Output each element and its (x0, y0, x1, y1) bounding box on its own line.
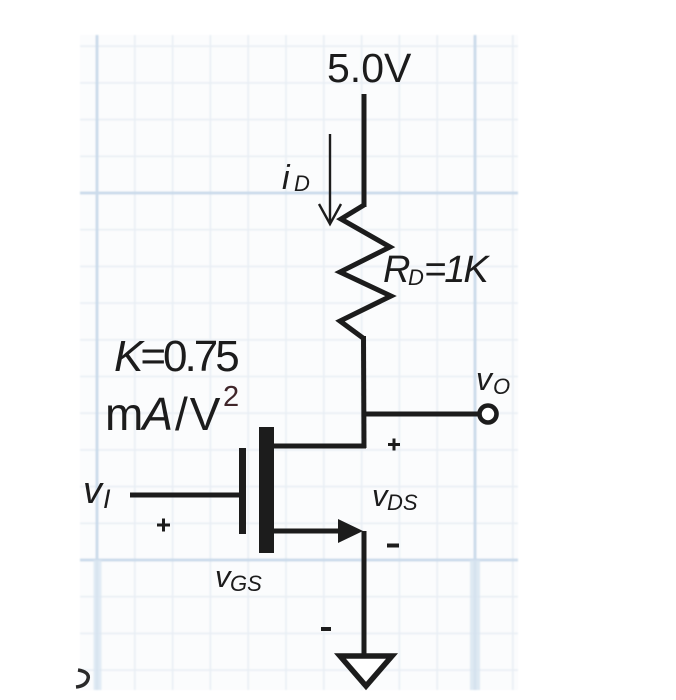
svg-text:I: I (103, 484, 111, 514)
label minus near ground (321, 627, 331, 631)
resistor R_D zigzag (340, 205, 391, 338)
wire supply vertical from 5.0V to resistor (362, 94, 367, 207)
wire source lead with arrow (274, 519, 363, 543)
label K=0.75 (114, 332, 238, 381)
label RD=1K (383, 249, 490, 291)
svg-text:DS: DS (387, 490, 418, 515)
label plus at drain (388, 439, 400, 451)
svg-text:=1K: =1K (424, 249, 490, 291)
label minus below vDS (387, 544, 399, 548)
ground symbol (340, 656, 392, 686)
label vI (83, 470, 111, 514)
svg-text:D: D (294, 171, 310, 196)
wire drain vertical (361, 336, 367, 448)
svg-text:D: D (408, 265, 424, 290)
graph paper background (80, 35, 518, 690)
terminal vO open circle (480, 406, 497, 423)
label mA/V^2 (105, 381, 239, 440)
svg-text:mA/V: mA/V (105, 388, 221, 440)
label plus at gate (157, 519, 170, 532)
svg-text:K=0.75: K=0.75 (114, 332, 238, 381)
svg-text:2: 2 (223, 381, 239, 413)
svg-text:R: R (383, 249, 410, 291)
label vDS (372, 478, 418, 515)
label iD (282, 159, 310, 197)
label vO (476, 361, 510, 399)
wire drain lead horizontal into transistor (274, 444, 366, 449)
transistor Q1 channel bar (259, 427, 274, 553)
transistor Q1 gate bar (239, 448, 246, 534)
label vGS (215, 559, 262, 596)
svg-text:v: v (476, 361, 494, 397)
stray handwriting mark bottom-left (76, 670, 88, 687)
label 5.0V supply voltage (327, 45, 412, 91)
svg-text:v: v (83, 470, 104, 512)
wire gate lead from vI (130, 493, 239, 498)
svg-text:5.0V: 5.0V (327, 45, 412, 91)
wire source vertical to ground (362, 531, 367, 656)
current arrow iD (319, 134, 341, 224)
svg-text:GS: GS (230, 571, 262, 596)
wire output horizontal to vO (364, 412, 478, 417)
svg-text:O: O (493, 374, 510, 399)
